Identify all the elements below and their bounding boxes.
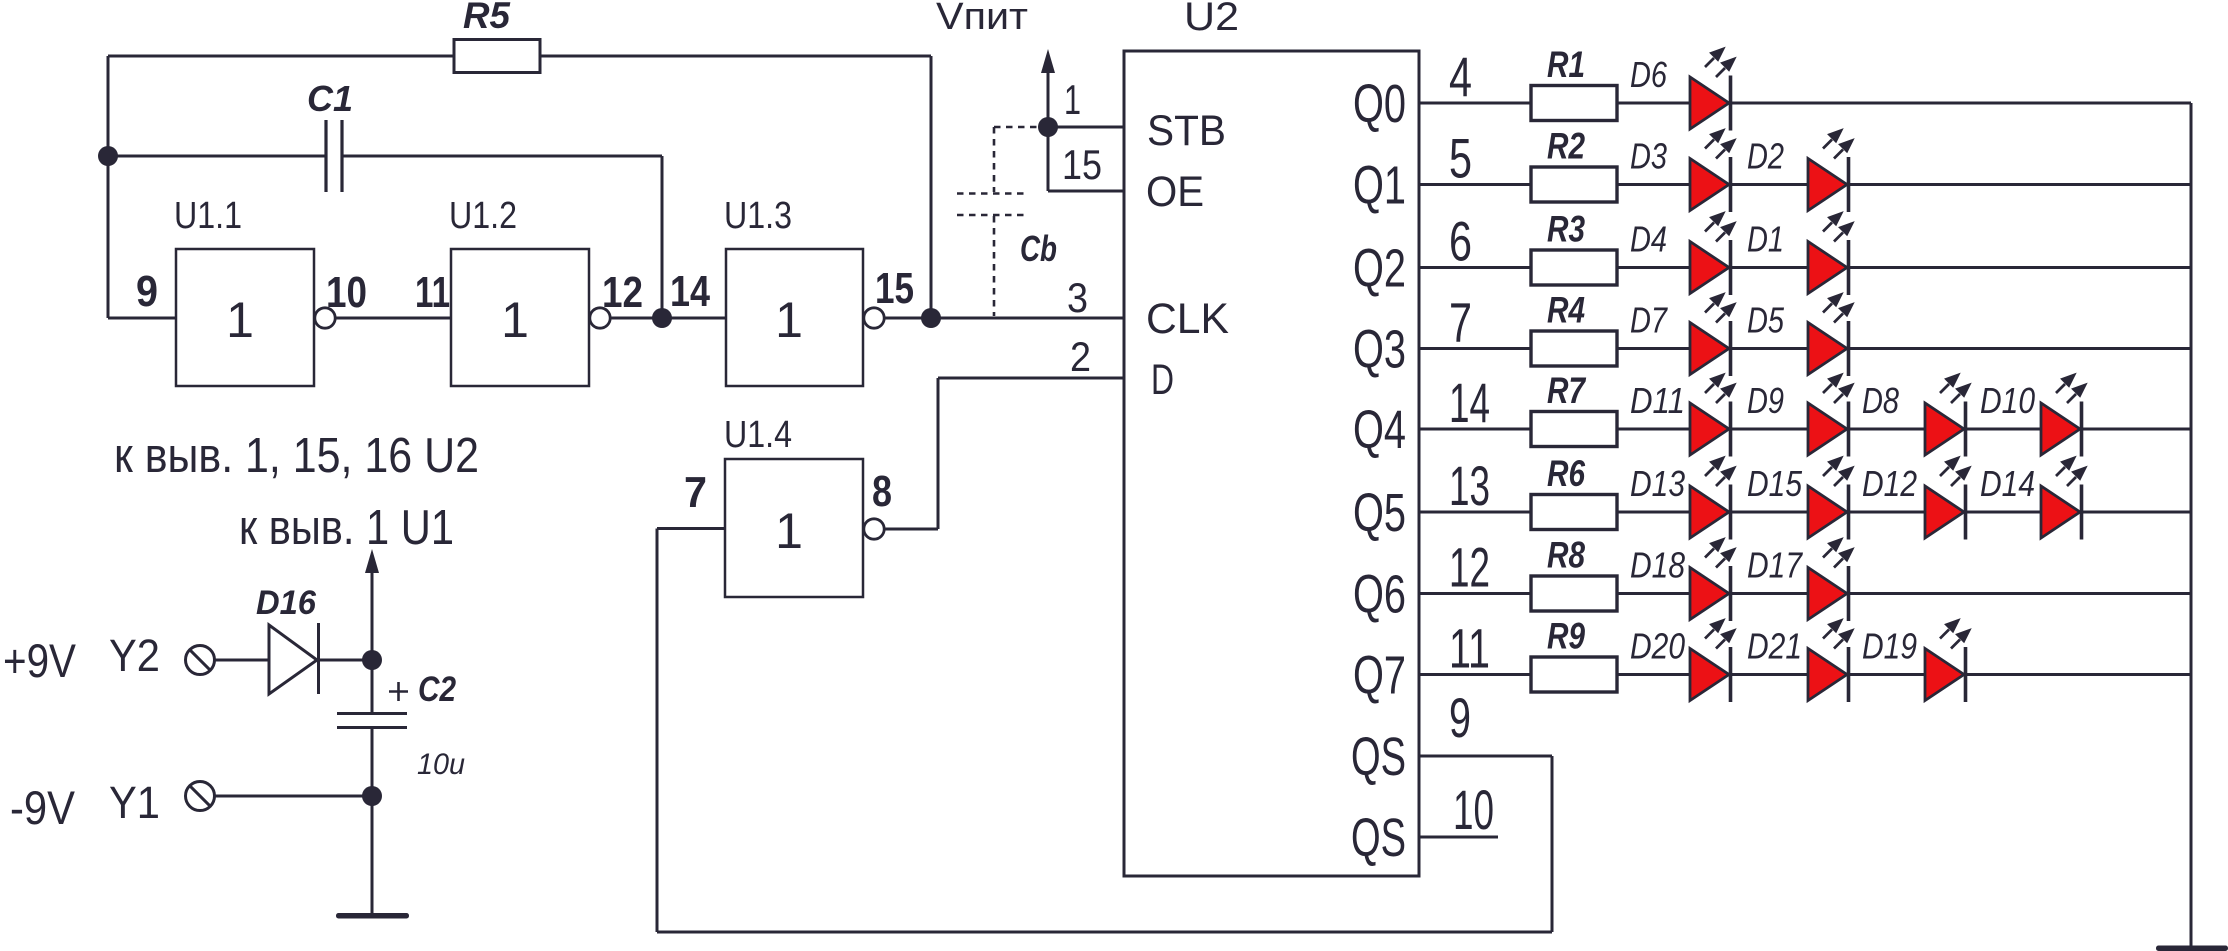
wire: Q3 row to LEDs and right bus: [1617, 347, 2191, 350]
resistor R4: [1531, 331, 1617, 366]
wire: vertical up to QS pin 9: [1551, 756, 1554, 932]
wire: C1 row right segment: [342, 155, 662, 158]
LED D3: [1690, 131, 1734, 213]
wire: Q5 row to LEDs and right bus: [1617, 511, 2191, 514]
IC U2 body: [1124, 51, 1419, 876]
svg-text:-9V: -9V: [10, 781, 76, 834]
wire: U1.2 out to node 14: [611, 317, 726, 320]
svg-text:к выв. 1, 15, 16 U2: к выв. 1, 15, 16 U2: [114, 429, 479, 483]
svg-text:Q0: Q0: [1353, 74, 1406, 134]
wire: Q5 row pin 13: [1419, 511, 1531, 514]
wire: Q6 row to LEDs and right bus: [1617, 592, 2191, 595]
wire: U1.4 out right: [885, 528, 938, 531]
capacitor C1: [326, 120, 342, 192]
svg-text:R9: R9: [1547, 616, 1585, 657]
wire: Q0 row to LEDs and right bus: [1617, 102, 2191, 105]
svg-text:к выв. 1 U1: к выв. 1 U1: [239, 501, 454, 555]
svg-text:R1: R1: [1547, 44, 1585, 85]
wire: D16 cathode to +9V node: [319, 659, 373, 662]
svg-text:Q2: Q2: [1353, 239, 1406, 299]
LED D13: [1690, 458, 1734, 540]
svg-text:D20: D20: [1630, 626, 1685, 667]
LED D12: [1925, 458, 1969, 540]
U1.1 output bubble pin 10: [315, 308, 335, 328]
ground (left): [336, 913, 409, 919]
capacitor C2: [337, 714, 407, 728]
resistor R2: [1531, 167, 1617, 202]
svg-text:STB: STB: [1147, 107, 1226, 155]
wire: D row into U2 pin 2: [938, 377, 1124, 380]
svg-text:R6: R6: [1547, 453, 1585, 494]
wire: vertical up to D row: [937, 378, 940, 529]
svg-text:1: 1: [775, 503, 803, 559]
resistor R6: [1531, 495, 1617, 530]
svg-text:U2: U2: [1184, 0, 1239, 39]
ground (right): [2156, 946, 2228, 951]
svg-text:D6: D6: [1630, 54, 1668, 95]
svg-text:Q6: Q6: [1353, 565, 1406, 625]
junction: -9V node: [362, 786, 382, 806]
LED D4: [1690, 214, 1734, 296]
wire: Q6 row pin 12: [1419, 592, 1531, 595]
wire: top bus right segment from R5 to vertical: [540, 55, 931, 58]
svg-text:R5: R5: [463, 0, 511, 36]
wire: node 15 to U2 CLK: [885, 317, 1124, 320]
junction: node 15: [921, 308, 941, 328]
svg-text:D5: D5: [1747, 300, 1785, 341]
LED D20: [1690, 621, 1734, 703]
resistor R1: [1531, 86, 1617, 121]
svg-text:D1: D1: [1747, 219, 1784, 260]
svg-text:Cb: Cb: [1020, 228, 1057, 269]
svg-text:4: 4: [1449, 45, 1472, 108]
wire: Y2 to D16 anode: [215, 659, 269, 662]
wire: OE pin 15: [1048, 190, 1124, 193]
wire: left vertical from top bus down to U1.1 input (node 9): [107, 56, 110, 318]
junction: Vpit node: [1038, 117, 1058, 137]
svg-text:9: 9: [1449, 686, 1471, 749]
junction: node at left vertical / C1 branch: [98, 146, 118, 166]
wire: U1.4 input pin 7: [657, 527, 725, 530]
svg-text:D17: D17: [1747, 545, 1804, 586]
svg-text:U1.2: U1.2: [449, 195, 517, 237]
capacitor Cb (dashed): [957, 127, 1039, 316]
wire: Q4 row to LEDs and right bus: [1617, 428, 2191, 431]
svg-text:1: 1: [501, 292, 529, 348]
svg-text:+9V: +9V: [3, 634, 77, 687]
wire: Y1 to node: [215, 795, 372, 798]
wire: right vertical of R5 loop down to node 15/CLK: [930, 56, 933, 318]
svg-text:12: 12: [1449, 536, 1490, 599]
wire: Q1 row pin 5: [1419, 183, 1531, 186]
svg-text:2: 2: [1070, 333, 1091, 380]
svg-text:U1.4: U1.4: [724, 414, 792, 456]
svg-text:D12: D12: [1862, 463, 1917, 504]
wire: Q3 row pin 7: [1419, 347, 1531, 350]
LED D21: [1808, 621, 1852, 703]
junction: +9V node: [362, 650, 382, 670]
svg-text:5: 5: [1449, 127, 1472, 190]
svg-text:11: 11: [1449, 617, 1490, 680]
LED D2: [1808, 131, 1852, 213]
U1.3 output bubble pin 15: [864, 308, 884, 328]
wire: input to U1.1 pin 9: [108, 317, 176, 320]
svg-text:OE: OE: [1146, 168, 1204, 216]
plus sign of C2: [389, 682, 408, 701]
junction: node 14: [652, 308, 672, 328]
resistor R7: [1531, 412, 1617, 447]
svg-text:D16: D16: [256, 584, 317, 622]
svg-text:D3: D3: [1630, 136, 1667, 177]
svg-text:Q5: Q5: [1353, 483, 1406, 543]
wire: Q0 row pin 4: [1419, 102, 1531, 105]
svg-text:Q7: Q7: [1353, 646, 1406, 706]
svg-text:D21: D21: [1747, 626, 1802, 667]
svg-text:D13: D13: [1630, 463, 1685, 504]
svg-text:D19: D19: [1862, 626, 1917, 667]
svg-text:8: 8: [872, 467, 892, 516]
LED D8: [1925, 375, 1969, 457]
svg-text:CLK: CLK: [1146, 295, 1229, 343]
power arrow Vpit: [1047, 68, 1050, 127]
svg-text:3: 3: [1067, 274, 1088, 321]
svg-text:C1: C1: [307, 78, 353, 119]
svg-text:Q4: Q4: [1353, 400, 1406, 460]
svg-text:13: 13: [1449, 454, 1490, 517]
LED D1: [1808, 214, 1852, 296]
svg-text:Q3: Q3: [1353, 320, 1406, 380]
LED D11: [1690, 375, 1734, 457]
wire: Q7 row pin 11: [1419, 673, 1531, 676]
svg-text:D7: D7: [1630, 300, 1669, 341]
svg-text:D15: D15: [1747, 463, 1803, 504]
svg-text:D9: D9: [1747, 380, 1784, 421]
svg-text:7: 7: [684, 468, 707, 517]
wire: U1.4 input vertical down to bottom bus: [656, 529, 659, 933]
svg-text:6: 6: [1449, 210, 1472, 273]
LED D17: [1808, 540, 1852, 622]
LED D9: [1808, 375, 1852, 457]
wire: node down to ground: [371, 796, 374, 913]
wire: bottom feedback bus: [657, 931, 1552, 934]
svg-text:Y2: Y2: [109, 630, 160, 681]
svg-text:D4: D4: [1630, 219, 1667, 260]
LED D7: [1690, 295, 1734, 377]
wire: Q4 row pin 14: [1419, 428, 1531, 431]
wire: Q1 row to LEDs and right bus: [1617, 183, 2191, 186]
svg-text:1: 1: [775, 292, 803, 348]
LED D10: [2041, 375, 2085, 457]
svg-text:D10: D10: [1980, 380, 2035, 421]
inverter U1.4: [725, 459, 863, 597]
svg-text:1: 1: [226, 292, 254, 348]
resistor R5: [454, 40, 540, 73]
svg-text:1: 1: [1064, 76, 1081, 123]
svg-text:14: 14: [1449, 371, 1490, 434]
wire: QS pin 10 stub: [1419, 836, 1498, 839]
wire: node down to C2: [371, 660, 374, 713]
svg-text:11: 11: [415, 268, 450, 317]
wire: C1 row left segment: [108, 155, 326, 158]
LED D14: [2041, 458, 2085, 540]
svg-text:15: 15: [875, 264, 914, 313]
svg-text:C2: C2: [418, 670, 456, 709]
svg-text:10u: 10u: [417, 748, 465, 781]
wire: right cathode bus: [2190, 103, 2193, 948]
svg-text:QS: QS: [1351, 727, 1406, 787]
svg-text:D2: D2: [1747, 136, 1784, 177]
svg-text:D11: D11: [1630, 380, 1685, 421]
svg-text:7: 7: [1449, 291, 1472, 354]
wire: Q2 row pin 6: [1419, 266, 1531, 269]
U1.2 output bubble pin 12: [590, 308, 610, 328]
svg-text:R7: R7: [1547, 370, 1587, 411]
wire: Q7 row to LEDs and right bus: [1617, 673, 2191, 676]
wire: vertical to OE pin 15: [1047, 127, 1050, 191]
svg-text:U1.1: U1.1: [174, 195, 242, 237]
svg-text:D18: D18: [1630, 545, 1685, 586]
svg-text:R2: R2: [1547, 126, 1585, 167]
svg-text:D: D: [1151, 356, 1174, 404]
wire: Q2 row to LEDs and right bus: [1617, 266, 2191, 269]
svg-text:D8: D8: [1862, 380, 1899, 421]
wire: top bus left segment to R5: [108, 55, 454, 58]
inverter U1.2: [451, 249, 589, 386]
svg-text:R4: R4: [1547, 290, 1585, 331]
svg-text:9: 9: [136, 267, 158, 316]
svg-text:Y1: Y1: [109, 777, 160, 828]
arrow to pin 1 U1: [371, 570, 374, 660]
svg-text:R3: R3: [1547, 209, 1585, 250]
LED D6: [1690, 49, 1734, 131]
svg-text:R8: R8: [1547, 535, 1585, 576]
inverter U1.1: [176, 249, 314, 386]
svg-text:15: 15: [1062, 141, 1102, 188]
svg-text:Vпит: Vпит: [936, 0, 1028, 38]
svg-text:10: 10: [326, 268, 367, 317]
svg-text:12: 12: [602, 268, 643, 317]
svg-text:D14: D14: [1980, 463, 2035, 504]
wire: U1.1 out to U1.2 in (pins 10-11): [336, 317, 451, 320]
resistor R3: [1531, 250, 1617, 285]
wire: STB pin 1: [1048, 126, 1124, 129]
wire: C2 to -9V node: [371, 728, 374, 797]
LED D18: [1690, 540, 1734, 622]
resistor R8: [1531, 576, 1617, 611]
diode D16: [269, 625, 317, 694]
inverter U1.3: [726, 249, 863, 386]
U1.4 output bubble pin 8: [864, 519, 884, 539]
svg-text:10: 10: [1453, 778, 1494, 841]
LED D19: [1925, 621, 1969, 703]
svg-text:Q1: Q1: [1353, 156, 1406, 216]
resistor R9: [1531, 657, 1617, 692]
wire: QS pin 9: [1419, 755, 1552, 758]
LED D5: [1808, 295, 1852, 377]
svg-text:QS: QS: [1351, 808, 1406, 868]
svg-text:U1.3: U1.3: [724, 195, 792, 237]
svg-text:14: 14: [670, 267, 710, 316]
wire: vertical from C1 row down to node 14: [661, 156, 664, 318]
LED D15: [1808, 458, 1852, 540]
